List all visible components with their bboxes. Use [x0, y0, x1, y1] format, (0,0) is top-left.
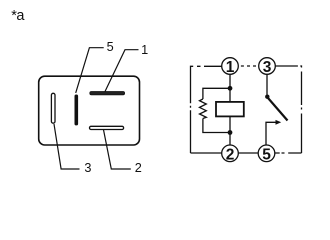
terminal 3	[259, 58, 276, 76]
wire resistor bottom to junction	[203, 119, 230, 133]
boundary chain line top-left	[191, 66, 222, 72]
pin label 2	[135, 161, 142, 175]
dashed wire terminal 1 to terminal 3	[241, 65, 256, 67]
leader line pin 2	[104, 130, 131, 169]
svg-text:*a: *a	[11, 8, 25, 24]
boundary chain line top-right	[276, 66, 302, 68]
relay connector body	[39, 76, 140, 145]
svg-text:5: 5	[262, 147, 271, 164]
pin label 3	[84, 161, 91, 175]
switch blade S1	[268, 98, 288, 121]
svg-text:3: 3	[263, 59, 272, 76]
leader line pin 5	[76, 48, 104, 93]
pin 5 slot (middle vertical, filled)	[75, 95, 79, 126]
switch moving contact arrow	[266, 120, 281, 145]
boundary chain line right vertical	[301, 72, 303, 154]
wire terminal 3 to switch contact	[266, 74, 268, 96]
svg-text:5: 5	[107, 40, 114, 54]
terminal 2	[222, 145, 239, 164]
pin 3 slot (left vertical)	[51, 93, 55, 123]
wire bottom-left (corner to terminal 2)	[191, 152, 222, 154]
leader line pin 1	[105, 50, 139, 92]
pin label 1	[141, 43, 148, 57]
junction dot top	[228, 86, 233, 91]
svg-text:1: 1	[141, 43, 148, 57]
leader line pin 3	[54, 124, 80, 169]
terminal 1	[222, 58, 239, 76]
boundary chain line bottom-right	[275, 152, 302, 154]
wire coil bottom to terminal 2	[229, 116, 231, 144]
relay coil L1	[216, 102, 244, 117]
wire junction to resistor top	[203, 88, 230, 99]
pin 1 slot (top horizontal, filled)	[90, 92, 125, 95]
svg-text:2: 2	[226, 147, 235, 164]
junction dot bottom	[228, 130, 233, 135]
svg-text:3: 3	[84, 161, 91, 175]
svg-text:2: 2	[135, 161, 142, 175]
boundary chain line left vertical	[190, 72, 192, 153]
svg-text:1: 1	[226, 59, 235, 76]
pin label 5	[107, 40, 114, 54]
note label *a	[11, 8, 25, 24]
switch contact dot	[265, 95, 269, 99]
wire terminal 2 to terminal 5	[238, 152, 258, 154]
resistor (zigzag)	[200, 99, 207, 119]
wire terminal 1 down to coil	[229, 74, 231, 102]
terminal 5	[258, 145, 275, 164]
pin 2 slot (bottom horizontal)	[90, 126, 124, 129]
